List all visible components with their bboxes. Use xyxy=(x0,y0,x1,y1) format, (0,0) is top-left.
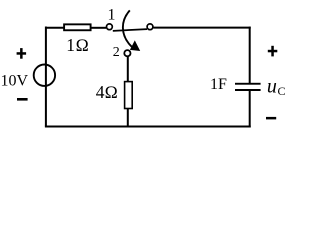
svg-text:4Ω: 4Ω xyxy=(96,82,118,102)
switch arrowhead xyxy=(130,40,140,51)
wire top-left segment xyxy=(45,27,65,29)
wire switch blade xyxy=(113,29,147,31)
svg-text:u: u xyxy=(267,76,277,98)
svg-text:C: C xyxy=(278,84,286,98)
resistor 1ohm xyxy=(64,24,91,30)
node 1 terminal xyxy=(107,24,113,30)
wire right vertical upper xyxy=(249,27,251,84)
polarity minus right xyxy=(266,117,276,120)
wire top-right segment xyxy=(153,27,251,29)
svg-text:1Ω: 1Ω xyxy=(66,35,89,55)
svg-text:10V: 10V xyxy=(1,73,29,90)
svg-text:1F: 1F xyxy=(210,76,227,93)
capacitor 1F bottom plate xyxy=(235,89,261,91)
wire top between resistor and node 1 xyxy=(91,27,107,29)
svg-text:1: 1 xyxy=(108,7,116,24)
svg-text:2: 2 xyxy=(113,45,120,60)
polarity plus left xyxy=(17,48,27,59)
wire bottom xyxy=(45,126,251,128)
polarity plus right xyxy=(268,46,278,57)
switch motion arc arrow xyxy=(123,10,132,46)
voltage source 10V xyxy=(34,65,55,86)
resistor 4ohm xyxy=(125,82,133,109)
wire left vertical xyxy=(45,27,47,127)
wire resistor R2 to bottom xyxy=(127,109,129,128)
switch pivot terminal xyxy=(147,24,153,30)
wire node2 to resistor R2 xyxy=(127,57,129,82)
node 2 terminal xyxy=(124,50,130,56)
polarity minus left xyxy=(17,98,28,101)
capacitor 1F top plate xyxy=(235,83,261,85)
wire right vertical lower xyxy=(249,90,251,128)
